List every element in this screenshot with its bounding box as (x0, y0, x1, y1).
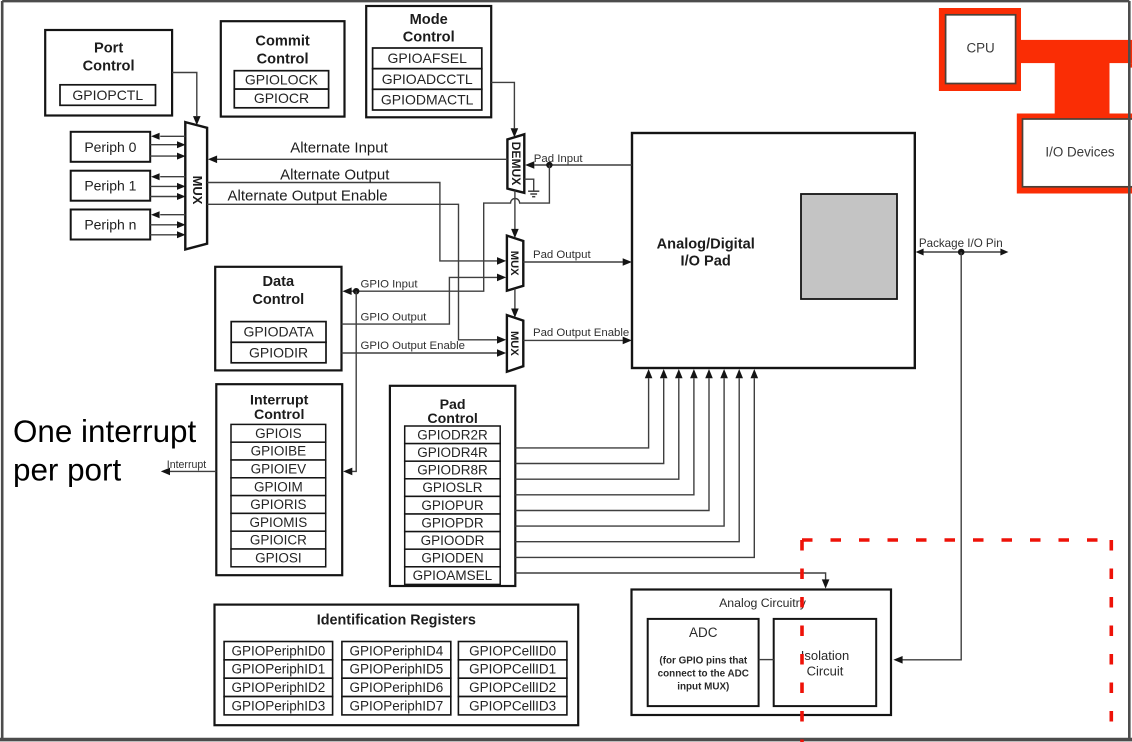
svg-text:GPIOPDR: GPIOPDR (421, 515, 484, 530)
box Data Control (215, 267, 341, 371)
mux M3 pad output enable (507, 315, 523, 372)
CPU to I/O devices red bus (1018, 40, 1132, 116)
label Pad Output Enable (533, 327, 629, 339)
svg-text:GPIODMACTL: GPIODMACTL (381, 91, 474, 107)
box Analog Circuitry (632, 590, 892, 716)
annotation text One interrupt per port (13, 414, 196, 488)
svg-text:GPIO Output: GPIO Output (361, 311, 428, 323)
svg-text:Analog Circuitry: Analog Circuitry (719, 596, 807, 610)
svg-text:GPIOMIS: GPIOMIS (249, 515, 307, 530)
wire MUX to Periph 1 (151, 173, 185, 180)
register GPIOLOCK (234, 71, 328, 89)
svg-text:Control: Control (252, 292, 304, 308)
box Periph n (71, 210, 151, 240)
svg-text:ADC: ADC (689, 625, 718, 640)
svg-text:GPIODIR: GPIODIR (249, 344, 308, 360)
wire GPIOPUR to pad (515, 369, 713, 511)
label GPIO Output (361, 311, 428, 323)
register GPIOPUR (405, 496, 501, 514)
register GPIODATA (231, 322, 326, 343)
svg-text:Isolation: Isolation (801, 648, 849, 663)
register GPIODR4R (405, 444, 501, 462)
register GPIOPCellID1 (458, 660, 567, 678)
box CPU (red annotation) (939, 8, 1021, 91)
node GPIO Input junction (353, 288, 359, 294)
svg-text:GPIOPeriphID2: GPIOPeriphID2 (231, 680, 325, 695)
wire GPIODR2R to pad (515, 369, 652, 448)
svg-text:GPIOPeriphID0: GPIOPeriphID0 (231, 643, 325, 658)
svg-text:per port: per port (13, 453, 121, 488)
label Package I/O Pin (919, 237, 1003, 250)
svg-text:GPIOPeriphID6: GPIOPeriphID6 (349, 680, 443, 695)
svg-text:Periph 0: Periph 0 (84, 139, 136, 155)
wire GPIODR4R to pad (515, 369, 667, 464)
demux U1 (507, 134, 524, 193)
wire Pad Output (523, 258, 632, 266)
svg-text:Port: Port (94, 41, 123, 57)
svg-text:Alternate Output Enable: Alternate Output Enable (228, 188, 388, 205)
wire GPIODEN to pad (515, 369, 758, 557)
svg-text:Pad Output Enable: Pad Output Enable (533, 327, 629, 339)
wire Package I/O Pin to Analog Circuitry isolation (893, 252, 961, 664)
register GPIOMIS (231, 513, 326, 531)
register GPIOPCellID2 (458, 678, 567, 696)
svg-text:GPIODR4R: GPIODR4R (417, 445, 488, 460)
register GPIODEN (405, 549, 501, 567)
box Pad Control (390, 386, 515, 586)
svg-text:GPIOPeriphID4: GPIOPeriphID4 (349, 643, 443, 658)
register GPIOIBE (231, 442, 326, 460)
wire GPIOPDR to pad (515, 369, 728, 526)
wire Alternate Output Enable (207, 204, 506, 343)
red dashed highlight box (802, 540, 1111, 742)
register GPIOPeriphID3 (224, 697, 333, 715)
register GPIOPeriphID7 (342, 697, 451, 715)
register GPIOSLR (405, 479, 501, 497)
svg-text:GPIOSI: GPIOSI (255, 550, 302, 565)
label GPIO Output Enable (361, 340, 465, 352)
svg-text:GPIOLOCK: GPIOLOCK (245, 72, 319, 88)
wire Pad Input (525, 161, 632, 169)
wire GPIOODR to pad (515, 369, 743, 542)
register GPIOICR (231, 531, 326, 549)
label GPIO Input (361, 279, 419, 291)
svg-text:(for GPIO pins that: (for GPIO pins that (659, 656, 747, 667)
svg-text:Control: Control (427, 411, 477, 427)
svg-text:GPIOPCellID1: GPIOPCellID1 (469, 662, 556, 677)
svg-text:Identification Registers: Identification Registers (317, 613, 476, 629)
register GPIOPeriphID2 (224, 678, 333, 696)
register GPIODR8R (405, 461, 501, 479)
svg-text:MUX: MUX (508, 251, 520, 276)
svg-text:CPU: CPU (966, 40, 994, 55)
wire GPIO Output Enable (342, 349, 507, 357)
svg-text:Alternate Output: Alternate Output (280, 167, 390, 184)
wire Mode Control to DEMUX select (491, 82, 518, 137)
register GPIODIR (231, 342, 326, 363)
wire Interrupt output (161, 468, 217, 476)
label Alternate Output (280, 167, 390, 184)
svg-text:GPIOPCellID2: GPIOPCellID2 (469, 680, 556, 695)
register GPIOAMSEL (405, 567, 501, 585)
label Pad Output (533, 249, 591, 261)
svg-text:Alternate Input: Alternate Input (290, 139, 388, 156)
svg-text:GPIOAMSEL: GPIOAMSEL (413, 568, 493, 583)
svg-text:GPIOCR: GPIOCR (254, 90, 309, 106)
svg-text:GPIO Output Enable: GPIO Output Enable (361, 340, 465, 352)
register GPIOPeriphID5 (342, 660, 451, 678)
wire Port Control to MUX select (172, 73, 201, 126)
wire ADC to Isolation Circuit (759, 659, 774, 661)
svg-text:Analog/Digital: Analog/Digital (657, 237, 755, 253)
svg-text:Control: Control (254, 407, 304, 423)
register GPIORIS (231, 496, 326, 514)
svg-text:Mode: Mode (410, 12, 448, 28)
register GPIOIS (231, 424, 326, 442)
svg-text:I/O Pad: I/O Pad (681, 254, 731, 270)
node Pad Input junction (546, 162, 552, 168)
svg-text:GPIOIS: GPIOIS (255, 426, 302, 441)
box Periph 0 (71, 132, 151, 162)
svg-text:GPIO Input: GPIO Input (361, 279, 419, 291)
svg-text:Control: Control (83, 59, 135, 75)
wire Alternate Input (208, 156, 508, 164)
svg-text:Pad Output: Pad Output (533, 249, 591, 261)
svg-text:GPIOPeriphID3: GPIOPeriphID3 (231, 698, 325, 713)
svg-text:MUX: MUX (508, 331, 520, 356)
wire GPIODR8R to pad (515, 369, 682, 479)
pad cell gray square (801, 194, 897, 299)
svg-text:GPIOPeriphID1: GPIOPeriphID1 (231, 662, 325, 677)
box Periph 1 (71, 171, 151, 201)
register GPIOIEV (231, 460, 326, 478)
svg-text:Control: Control (257, 52, 309, 68)
register GPIOAFSEL (373, 48, 482, 69)
label Alternate Input (290, 139, 388, 156)
svg-text:Control: Control (403, 30, 455, 46)
svg-text:GPIOPCTL: GPIOPCTL (72, 87, 143, 103)
wire Periph 1 to MUX inputs (150, 183, 185, 200)
box Identification Registers (215, 605, 579, 726)
wire MUX to Periph n (151, 211, 185, 218)
svg-text:I/O Devices: I/O Devices (1045, 144, 1115, 159)
box ADC (648, 619, 759, 706)
svg-text:GPIODR8R: GPIODR8R (417, 463, 488, 478)
box Port Control (45, 30, 172, 116)
svg-text:Package I/O Pin: Package I/O Pin (919, 237, 1003, 250)
register GPIODR2R (405, 426, 501, 444)
node Package I/O Pin junction (958, 249, 965, 256)
svg-text:GPIOADCCTL: GPIOADCCTL (382, 71, 473, 87)
ground (524, 179, 539, 197)
svg-text:Periph 1: Periph 1 (84, 178, 136, 194)
register GPIOPCellID0 (458, 642, 567, 660)
svg-text:GPIOPeriphID7: GPIOPeriphID7 (349, 698, 443, 713)
mux M2 pad output (507, 236, 523, 291)
wire DEMUX to MUX M2 (511, 191, 519, 239)
svg-text:One interrupt: One interrupt (13, 414, 196, 449)
svg-text:GPIOAFSEL: GPIOAFSEL (388, 50, 468, 66)
register GPIOPeriphID4 (342, 642, 451, 660)
wire MUX M2 to MUX M3 (511, 289, 519, 318)
wire Package I/O Pin (916, 249, 1009, 256)
svg-text:GPIODR2R: GPIODR2R (417, 427, 488, 442)
svg-text:Commit: Commit (255, 34, 309, 50)
box Mode Control (366, 6, 491, 117)
svg-text:Periph n: Periph n (84, 217, 136, 233)
svg-text:GPIOODR: GPIOODR (421, 533, 485, 548)
register GPIOODR (405, 532, 501, 550)
register GPIOPeriphID6 (342, 678, 451, 696)
label Alternate Output Enable (228, 188, 388, 205)
wire GPIOAMSEL to Analog Circuitry (515, 573, 829, 589)
wire Pad Output Enable (523, 337, 632, 345)
label Interrupt (167, 459, 207, 471)
label Pad Input (534, 153, 584, 165)
svg-text:DEMUX: DEMUX (509, 142, 523, 186)
mux M1 peripheral MUX (185, 122, 207, 249)
svg-text:GPIOIBE: GPIOIBE (251, 444, 307, 459)
wire MUX to Periph 0 (151, 133, 185, 140)
svg-text:Circuit: Circuit (807, 664, 844, 679)
box Analog/Digital I/O Pad (632, 133, 915, 368)
svg-text:GPIODEN: GPIODEN (421, 551, 483, 566)
register GPIODMACTL (373, 89, 482, 110)
wire GPIO Input (pad input branch to Data Control) (342, 165, 549, 295)
register GPIOADCCTL (373, 69, 482, 90)
svg-text:GPIOICR: GPIOICR (250, 533, 307, 548)
svg-text:input MUX): input MUX) (677, 681, 729, 692)
register GPIOPCellID3 (458, 697, 567, 715)
svg-text:GPIORIS: GPIORIS (250, 497, 306, 512)
svg-text:connect to the ADC: connect to the ADC (658, 668, 749, 679)
register GPIOCR (234, 89, 328, 108)
wire Periph 0 to MUX inputs (150, 141, 185, 159)
box Commit Control (221, 21, 345, 116)
box Interrupt Control (216, 384, 342, 575)
svg-text:GPIOPUR: GPIOPUR (421, 498, 484, 513)
register GPIOPeriphID1 (224, 660, 333, 678)
svg-text:MUX: MUX (190, 176, 205, 205)
box I/O Devices (red annotation) (1017, 114, 1132, 194)
svg-text:Data: Data (262, 274, 295, 290)
wire GPIOSLR to pad (515, 369, 697, 495)
register GPIOPDR (405, 514, 501, 532)
wire Periph n to MUX inputs (150, 221, 185, 238)
svg-text:GPIOIM: GPIOIM (254, 479, 303, 494)
register GPIOSI (231, 549, 326, 567)
svg-text:GPIOPCellID3: GPIOPCellID3 (469, 698, 556, 713)
wire GPIO Input branch to Interrupt Control (343, 291, 356, 475)
register GPIOIM (231, 478, 326, 496)
svg-text:Interrupt: Interrupt (167, 459, 207, 471)
svg-text:GPIOSLR: GPIOSLR (422, 480, 482, 495)
svg-text:Pad Input: Pad Input (534, 153, 584, 165)
register GPIOPCTL (60, 85, 156, 106)
svg-text:GPIODATA: GPIODATA (243, 324, 314, 340)
wire GPIO Output (342, 274, 507, 325)
register GPIOPeriphID0 (224, 642, 333, 660)
svg-text:GPIOPCellID0: GPIOPCellID0 (469, 643, 556, 658)
svg-text:GPIOPeriphID5: GPIOPeriphID5 (349, 662, 443, 677)
box Isolation Circuit (774, 619, 877, 706)
svg-text:GPIOIEV: GPIOIEV (251, 461, 307, 476)
wire Alternate Output (207, 183, 506, 265)
